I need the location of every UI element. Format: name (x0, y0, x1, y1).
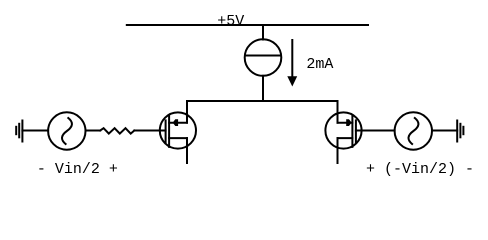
svg-text:- Vin/2 +: - Vin/2 + (37, 161, 118, 178)
wire tail node to M1 source (186, 101, 188, 123)
wire V2 to ground (432, 130, 457, 132)
transistor M1 (160, 112, 196, 148)
svg-text:2mA: 2mA (306, 56, 333, 73)
wire tail node to M2 source (337, 101, 339, 123)
source V2 (395, 112, 432, 149)
source V1 (48, 112, 85, 149)
wire ground to V1 (22, 130, 48, 132)
wire current source to tail node (262, 76, 264, 101)
wire R1 to M1 gate (134, 130, 165, 132)
wire M2 drain stub (337, 138, 339, 163)
wire V1 to R1 (86, 130, 101, 132)
+5V power rail wire (127, 24, 368, 26)
svg-text:+ (-Vin/2) -: + (-Vin/2) - (366, 161, 474, 178)
wire M2 gate to V2 (356, 130, 395, 132)
wire rail to current source (262, 25, 264, 40)
current direction arrow (287, 40, 297, 87)
svg-text:+5V: +5V (217, 13, 244, 30)
transistor M2 (325, 112, 361, 148)
current source I1 (245, 39, 282, 76)
ground right (457, 121, 463, 142)
wire M1 drain stub (186, 138, 188, 163)
ground left (16, 121, 22, 142)
wire tail node horizontal (187, 100, 338, 102)
resistor R1 (100, 128, 134, 133)
